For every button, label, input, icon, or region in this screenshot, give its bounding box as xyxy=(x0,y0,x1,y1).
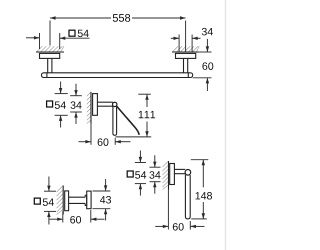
paper holder: vertical arm xyxy=(113,106,117,135)
dimension 34 spare holder stem xyxy=(150,155,161,194)
label square 54 34 paper holder xyxy=(47,101,53,107)
hook: wall plate xyxy=(65,191,69,211)
dimension 34 towel bar post xyxy=(171,35,201,52)
paper holder: pivot circle xyxy=(113,102,117,106)
towel bar: horizontal rail xyxy=(42,73,193,78)
dimension 43 hook height xyxy=(93,179,111,221)
spare holder: wall plate xyxy=(170,164,175,185)
dimension 54 paper holder plate xyxy=(55,82,68,128)
page divider line xyxy=(225,0,227,250)
hook: knob flange xyxy=(85,195,87,205)
towel bar: right wall plate xyxy=(176,53,196,58)
dimension 148 spare holder height xyxy=(191,160,209,219)
paper holder: stem xyxy=(97,102,113,106)
hook: stem xyxy=(69,197,86,203)
dimension 54 spare holder plate xyxy=(135,151,146,196)
towel bar: left wall plate xyxy=(40,53,60,58)
hook: wall hatching xyxy=(57,186,64,215)
towel bar: right wall hatching xyxy=(172,46,199,52)
dimension 34 paper holder stem xyxy=(70,84,82,124)
dimension 558 xyxy=(50,18,186,52)
dimension 111 paper holder height xyxy=(115,94,151,137)
spare holder: rod circle xyxy=(185,170,191,176)
spare holder: wall hatching xyxy=(163,161,169,190)
dimension 54 (square) towel bar xyxy=(26,33,90,49)
dimension 60 paper holder depth xyxy=(79,124,131,145)
spare holder: stem xyxy=(174,169,185,173)
towel bar: right post xyxy=(184,58,188,72)
dimension 54 hook plate xyxy=(44,177,56,225)
dimension 60 spare holder depth xyxy=(155,190,204,230)
dimension 60 towel bar height xyxy=(193,39,212,91)
label square 54 hook xyxy=(34,198,40,204)
paper holder: diagonal roll arm xyxy=(116,106,139,135)
spare holder: vertical rod xyxy=(185,175,190,219)
dimension 60 hook depth xyxy=(50,210,105,223)
hook: knob xyxy=(87,191,91,209)
towel bar: left post xyxy=(48,58,52,72)
towel bar: left wall hatching xyxy=(36,46,64,52)
label square 54 34 spare holder xyxy=(127,171,133,177)
paper holder: wall hatching xyxy=(87,92,91,124)
paper holder: wall plate xyxy=(93,94,98,116)
